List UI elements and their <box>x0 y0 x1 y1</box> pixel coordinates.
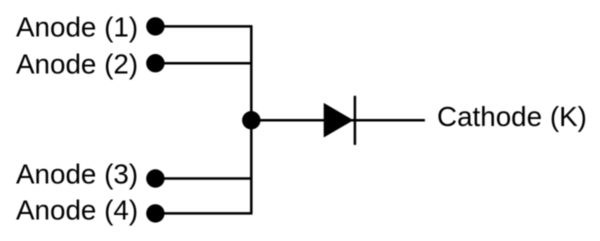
diode D1 anode triangle <box>324 103 354 138</box>
svg-text:Anode (2): Anode (2) <box>16 49 138 80</box>
terminal dot anode 4 <box>146 204 164 222</box>
wire anode 2 stub <box>155 62 252 65</box>
svg-text:Cathode (K): Cathode (K) <box>437 101 587 132</box>
svg-text:Anode (4): Anode (4) <box>16 195 138 226</box>
svg-text:Anode (3): Anode (3) <box>16 159 138 190</box>
wire vertical bus <box>250 26 253 213</box>
terminal dot anode 3 <box>146 169 164 187</box>
wire anode 3 stub <box>155 177 252 180</box>
junction dot <box>242 111 260 129</box>
wire anode 1 stub <box>155 25 252 28</box>
diode D1 cathode bar <box>354 96 357 145</box>
wire anode 4 stub <box>155 212 252 215</box>
svg-text:Anode (1): Anode (1) <box>16 12 138 43</box>
wire main output line <box>251 119 425 122</box>
terminal dot anode 2 <box>146 54 164 72</box>
terminal dot anode 1 <box>146 17 164 35</box>
